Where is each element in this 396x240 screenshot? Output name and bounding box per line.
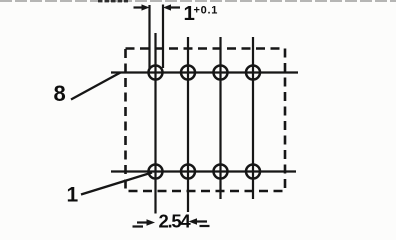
center line column 4 (252, 37, 254, 199)
center line bottom row (111, 170, 296, 172)
hole pin 2 (181, 165, 195, 179)
leader line pin 8 (71, 73, 121, 100)
leader line pin 1 (81, 173, 152, 195)
hole pin 8 (149, 66, 163, 80)
dimension arrow right (hole diameter) (163, 4, 180, 10)
center line column 1 (154, 33, 156, 214)
extension line left (hole diameter) (148, 5, 150, 68)
dimension arrow left (hole diameter) (134, 4, 150, 10)
svg-text:8: 8 (54, 81, 66, 106)
component outline (dashed body) (126, 49, 286, 192)
center line column 3 (219, 37, 221, 199)
svg-text:2.54: 2.54 (159, 211, 192, 231)
dimension text 1 +0.1 (184, 2, 219, 25)
hole pin 3 (214, 165, 228, 179)
top border dark segment (98, 0, 128, 2)
svg-text:+0.1: +0.1 (194, 4, 219, 16)
center line column 2 (187, 37, 189, 212)
hole pin 5 (246, 66, 260, 80)
top border artifact line (0, 0, 396, 2)
hole pin 6 (214, 66, 228, 80)
dimension arrow right (pitch 2.54) (189, 218, 210, 226)
extension line right (hole diameter) (162, 5, 164, 69)
hole pin 4 (246, 165, 260, 179)
svg-text:1: 1 (67, 183, 79, 206)
hole pin 7 (181, 66, 195, 80)
center line top row (111, 71, 298, 73)
hole pin 1 (149, 165, 163, 179)
dimension arrow left (pitch 2.54) (133, 219, 156, 226)
